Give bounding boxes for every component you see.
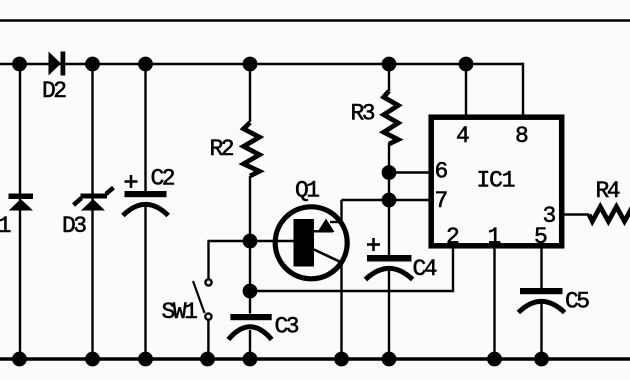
svg-text:5: 5 [534,224,547,250]
svg-text:6: 6 [435,159,448,185]
svg-text:D1: D1 [0,213,11,239]
svg-text:Q1: Q1 [295,178,319,204]
svg-text:C5: C5 [565,289,589,315]
svg-text:1: 1 [488,224,501,250]
svg-text:D3: D3 [62,213,86,239]
svg-text:R3: R3 [351,101,375,127]
svg-text:4: 4 [456,123,469,149]
svg-text:R4: R4 [596,178,620,204]
svg-text:8: 8 [515,123,528,149]
svg-text:IC1: IC1 [477,168,515,194]
svg-text:SW1: SW1 [162,299,198,325]
svg-text:C3: C3 [275,314,299,340]
svg-text:C4: C4 [413,256,437,282]
svg-text:2: 2 [446,224,459,250]
svg-text:D2: D2 [42,78,66,104]
svg-text:7: 7 [435,188,447,214]
svg-text:C2: C2 [151,166,175,192]
svg-text:R2: R2 [210,136,234,162]
